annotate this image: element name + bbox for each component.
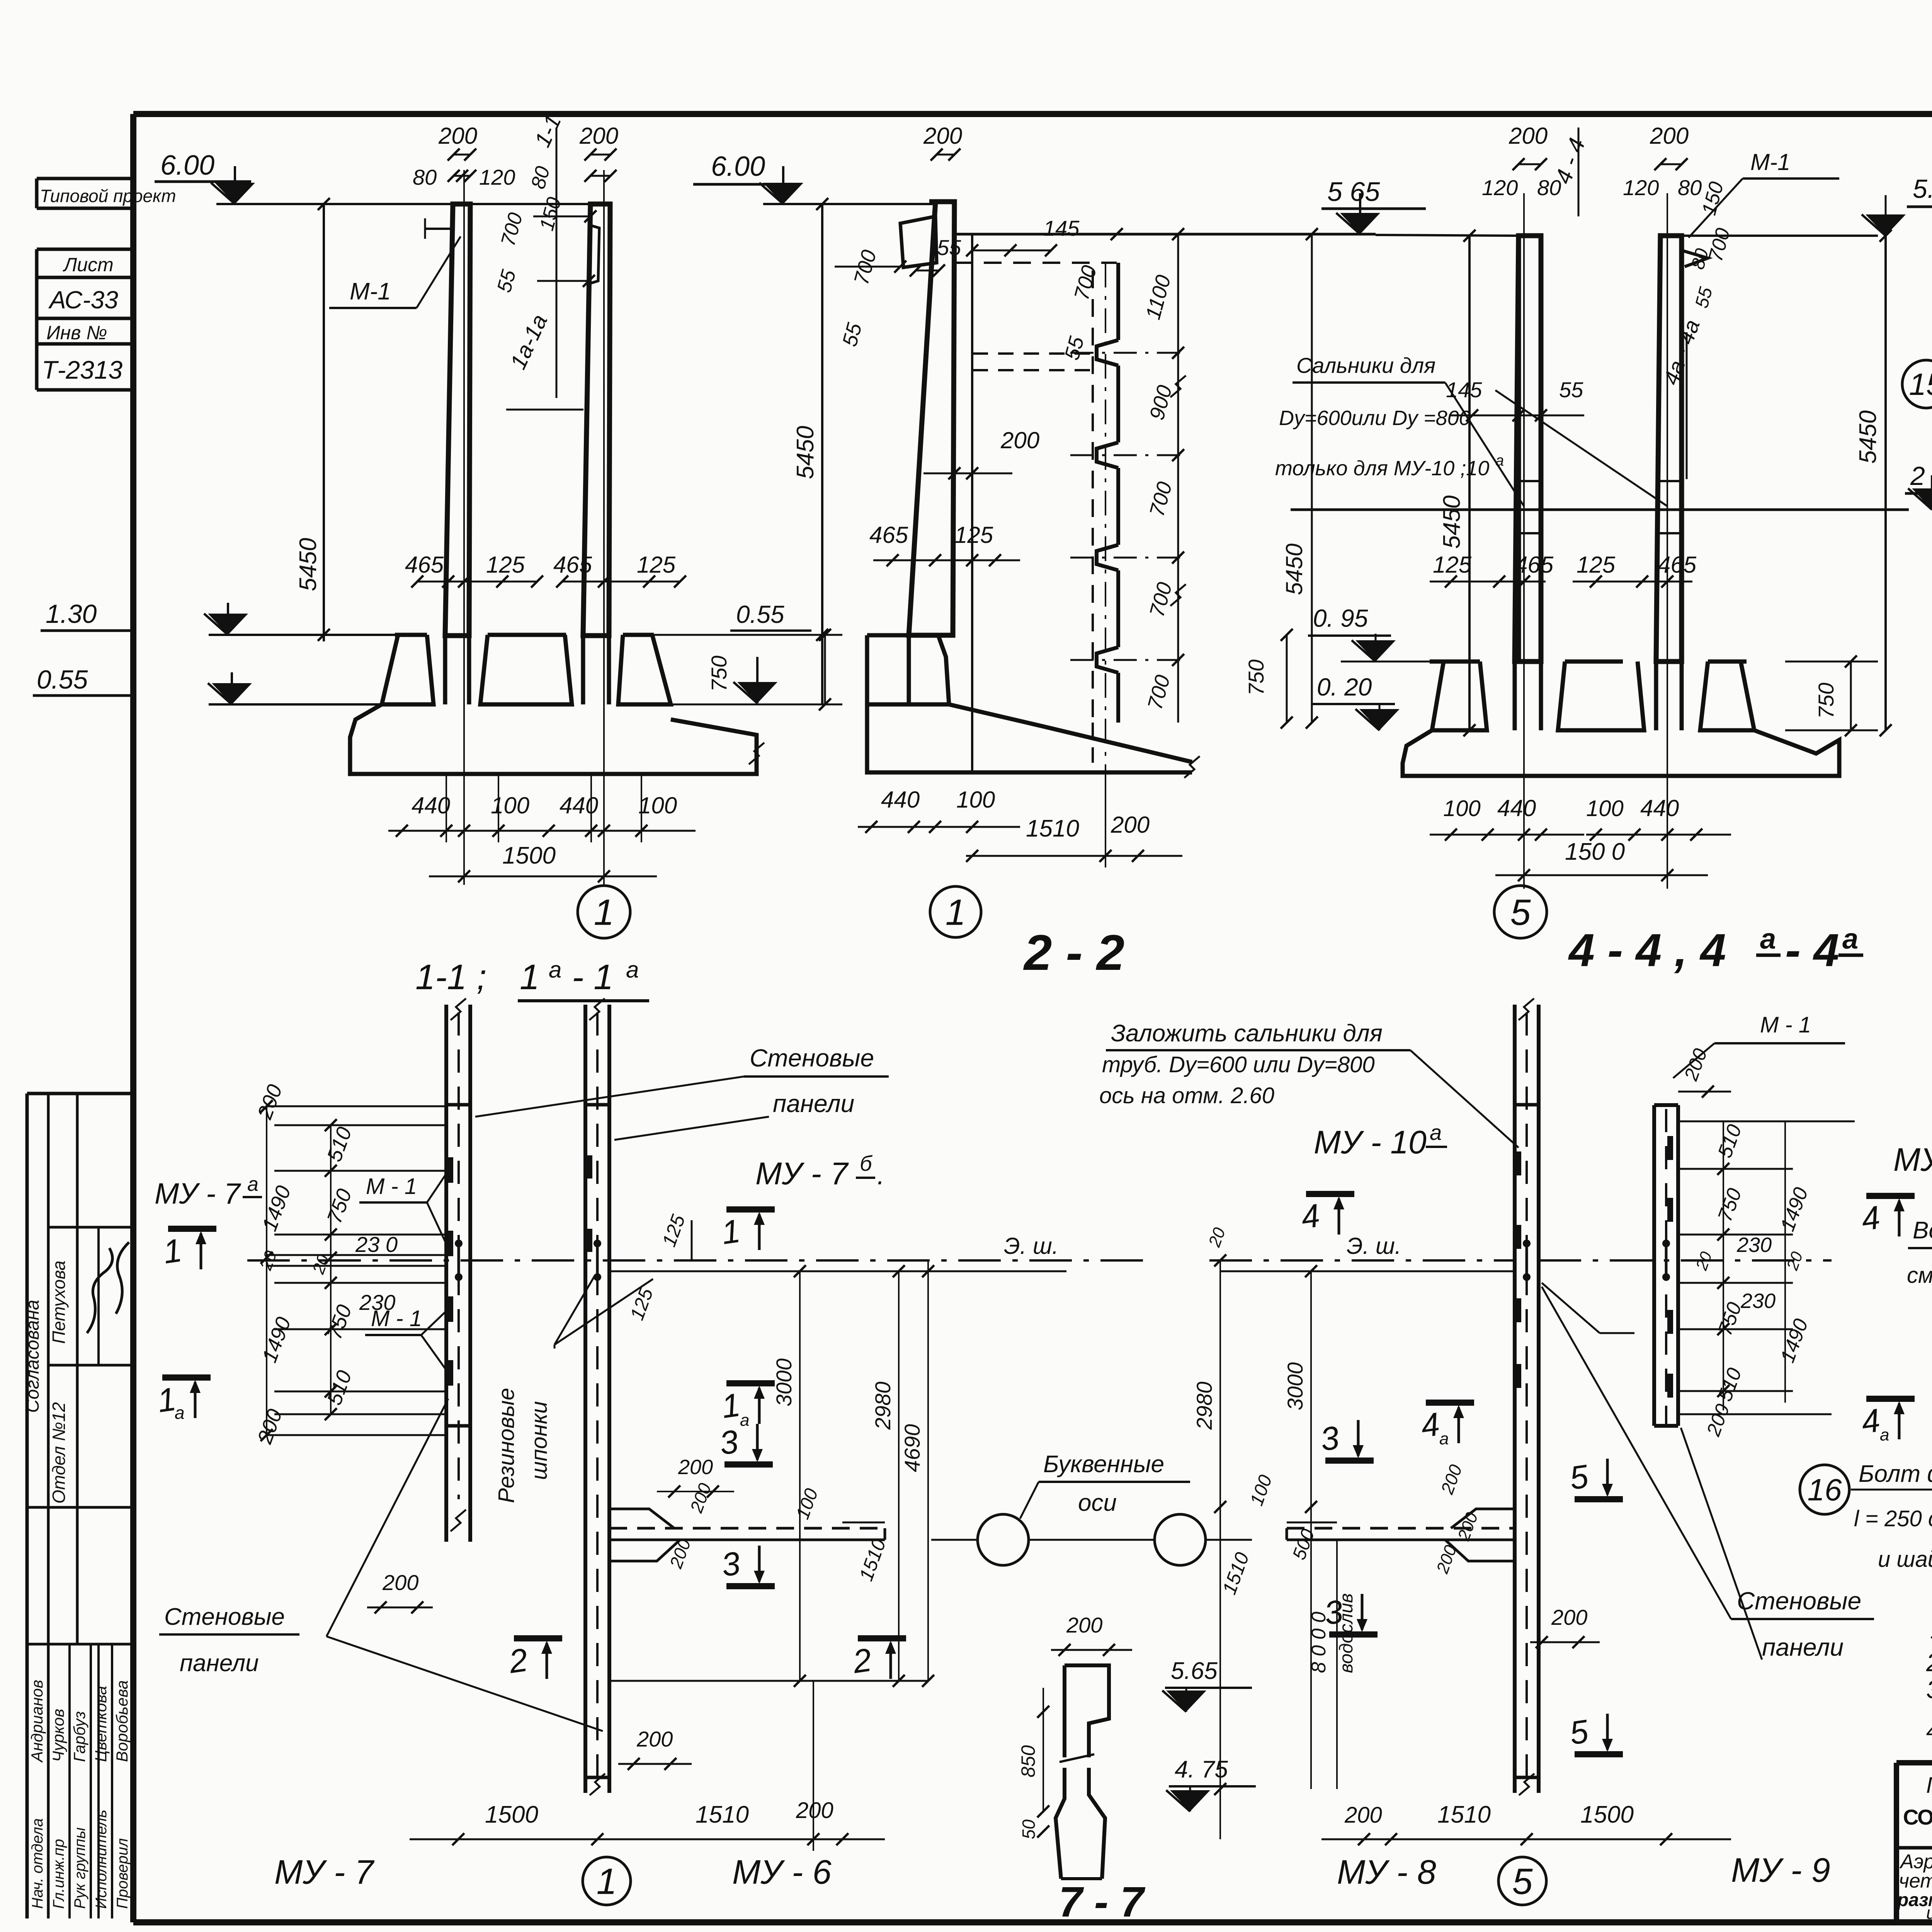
section 2-2 footing dashed axis (1092, 723, 1094, 772)
MU-7a dim chains left (267, 1105, 446, 1107)
svg-text:15: 15 (1909, 367, 1932, 401)
svg-text:200: 200 (382, 1570, 418, 1595)
svg-text:а: а (1842, 923, 1858, 955)
svg-text:1.30: 1.30 (46, 599, 97, 629)
svg-text:0.55: 0.55 (37, 665, 88, 694)
section 4-4 dim 750 right (1785, 661, 1878, 663)
svg-text:Цветкова: Цветкова (92, 1686, 110, 1762)
svg-text:465: 465 (405, 552, 444, 578)
MU-7a wall (444, 1005, 448, 1504)
svg-text:750: 750 (707, 656, 731, 692)
svg-text:панели: панели (1762, 1633, 1844, 1661)
MU-7a wall plate marks (447, 1157, 453, 1183)
svg-text:Госстрой СССР: Госстрой СССР (1926, 1773, 1932, 1798)
svg-text:1: 1 (946, 892, 966, 933)
svg-text:а: а (1439, 1429, 1449, 1448)
svg-text:М-1: М-1 (350, 278, 391, 305)
svg-text:1-1 ;: 1-1 ; (415, 957, 486, 997)
section 1-1 base slab (350, 704, 757, 774)
svg-text:0. 20: 0. 20 (1317, 673, 1372, 701)
svg-text:200: 200 (1650, 123, 1689, 149)
MU-6 sec 3 marks (724, 1461, 773, 1468)
svg-text:230: 230 (1740, 1289, 1776, 1313)
MU-9 wall plate marks (1667, 1136, 1673, 1160)
svg-text:Воробьева: Воробьева (113, 1680, 131, 1762)
svg-text:а: а (1760, 923, 1776, 955)
svg-text:а: а (549, 957, 561, 983)
svg-text:М - 1: М - 1 (371, 1306, 422, 1331)
MU-9 sec marks 4 (1866, 1193, 1915, 1199)
MU-8 sec mark 4a (1426, 1400, 1474, 1406)
svg-text:только для МУ-10 ;10: только для МУ-10 ;10 (1275, 457, 1489, 480)
svg-text:440: 440 (1497, 795, 1536, 821)
svg-text:1: 1 (594, 892, 614, 933)
svg-text:200: 200 (1000, 427, 1039, 453)
svg-text:Болт ф16 А: Болт ф16 А (1859, 1461, 1932, 1487)
svg-text:5. 65: 5. 65 (1913, 174, 1932, 204)
section 2-2 wall (909, 202, 954, 635)
svg-text:Стеновые: Стеновые (750, 1044, 874, 1072)
svg-text:см. прим. п. 4: см. прим. п. 4 (1907, 1263, 1932, 1288)
svg-text:МУ - 6: МУ - 6 (732, 1853, 832, 1891)
section 2-2 footing (867, 635, 949, 704)
svg-text:1510: 1510 (1026, 815, 1079, 842)
rubber waterstop marks (455, 1240, 463, 1247)
centerline Э.ш. MU-8 (1209, 1259, 1515, 1262)
title block (1896, 1760, 1932, 1765)
svg-text:200: 200 (1344, 1803, 1382, 1828)
MU-7a lower part (444, 1504, 448, 1542)
svg-text:а: а (175, 1403, 185, 1423)
svg-text:200: 200 (636, 1727, 673, 1751)
svg-text:оси: оси (1078, 1490, 1117, 1516)
MU-6 notch detail (609, 1527, 885, 1530)
svg-text:ось на отм. 2.60: ось на отм. 2.60 (1099, 1083, 1274, 1108)
section 2-2 panel axis (1105, 263, 1106, 771)
svg-text:- 4: - 4 (1785, 924, 1839, 976)
svg-text:Т-2313: Т-2313 (42, 355, 122, 384)
svg-text:440: 440 (560, 793, 598, 818)
svg-text:из сборного железобетона: из сборного железобетона (1926, 1903, 1932, 1923)
svg-text:Рук группы: Рук группы (71, 1827, 88, 1909)
svg-text:6.00: 6.00 (160, 150, 214, 181)
centerline Э.ш. (247, 1259, 1151, 1262)
MU-7b wall plate marks (587, 1155, 592, 1179)
svg-text:а: а (1880, 1425, 1889, 1444)
section 2-2 toothed panel (1092, 270, 1094, 723)
svg-text:Нач. отдела: Нач. отдела (29, 1818, 46, 1909)
svg-text:а: а (626, 957, 639, 983)
svg-text:100: 100 (491, 793, 529, 818)
svg-text:1500: 1500 (1580, 1801, 1634, 1828)
section 1-1 top dims 200/80/120 (454, 154, 470, 156)
svg-text:5450: 5450 (1281, 544, 1307, 595)
svg-text:0. 95: 0. 95 (1313, 604, 1368, 632)
section 4-4 footing (1430, 660, 1480, 664)
svg-text:1500: 1500 (485, 1801, 538, 1828)
svg-text:200: 200 (923, 123, 962, 149)
sec marks 2 (514, 1635, 562, 1641)
svg-text:200: 200 (1509, 123, 1548, 149)
svg-text:440: 440 (412, 793, 450, 818)
svg-text:125: 125 (637, 552, 676, 578)
MU-9 dim chains right (1678, 1121, 1855, 1122)
section 4-4 col2 axis (1667, 193, 1668, 889)
svg-text:80: 80 (413, 165, 437, 189)
svg-text:465: 465 (869, 522, 908, 548)
svg-text:55: 55 (937, 235, 961, 260)
svg-text:Заложить сальники для: Заложить сальники для (1111, 1020, 1383, 1047)
svg-text:100: 100 (638, 793, 677, 818)
section 4-4 column 2 (1656, 236, 1682, 662)
svg-text:панели: панели (180, 1650, 259, 1677)
svg-text:100: 100 (956, 787, 995, 813)
svg-text:Стеновые: Стеновые (164, 1604, 285, 1630)
svg-text:l = 250 с гайками: l = 250 с гайками (1854, 1506, 1932, 1531)
section 6-6 callout 16 bolt label (1800, 1465, 1849, 1514)
MU-10a sec mark 4 (1306, 1191, 1354, 1197)
section 1-1 dim 750 right (824, 635, 826, 704)
svg-text:125: 125 (486, 552, 525, 578)
MU-8 wall plate marks (1515, 1151, 1521, 1175)
axis bubble 5 bottom (1498, 1857, 1546, 1905)
svg-text:100: 100 (1443, 796, 1481, 821)
svg-text:Буквенные: Буквенные (1043, 1451, 1164, 1478)
section 2-2 wall face line (971, 234, 973, 773)
svg-text:Отдел №12: Отдел №12 (49, 1402, 69, 1504)
svg-text:Чурков: Чурков (49, 1709, 67, 1762)
section 2-2 hidden slab dashes (973, 352, 1094, 355)
svg-text:465: 465 (553, 552, 592, 578)
svg-text:750: 750 (1814, 683, 1838, 719)
svg-text:Исполнитель: Исполнитель (93, 1810, 110, 1909)
svg-text:100: 100 (1586, 796, 1624, 821)
svg-text:МУ - 10: МУ - 10 (1314, 1124, 1427, 1160)
svg-text:125: 125 (1577, 552, 1616, 578)
section 1-1 footing (395, 633, 427, 637)
centerline to MU-9 (1539, 1259, 1832, 1262)
svg-text:1: 1 (520, 957, 539, 997)
svg-text:и шайбами: и шайбами (1878, 1547, 1932, 1572)
svg-text:80: 80 (1678, 175, 1702, 200)
MU-8 waterstop (1523, 1240, 1531, 1247)
svg-text:55: 55 (1559, 378, 1583, 402)
section 1-1 column 1 (445, 204, 470, 636)
svg-text:а: а (1430, 1120, 1442, 1145)
svg-text:АС-33: АС-33 (48, 286, 118, 314)
svg-text:7 - 7: 7 - 7 (1059, 1878, 1146, 1926)
svg-text:Резиновые: Резиновые (494, 1388, 519, 1503)
MU-9 waterstop (1662, 1240, 1670, 1247)
svg-text:3000: 3000 (1283, 1362, 1307, 1410)
svg-text:145: 145 (1043, 216, 1080, 240)
svg-text:1: 1 (597, 1861, 617, 1902)
svg-text:шпонки: шпонки (527, 1401, 552, 1480)
svg-text:панели: панели (773, 1090, 854, 1117)
section 1-1 dim 5450 left (323, 204, 325, 641)
svg-text:1. Монтажные чертежи: 1. Монтажные чертежи см. л. п. АС- 23- 2… (1930, 1615, 1932, 1644)
svg-text:145: 145 (1446, 378, 1482, 402)
svg-text:465: 465 (1515, 552, 1554, 578)
svg-text:200: 200 (1111, 812, 1150, 838)
svg-text:4. 75: 4. 75 (1175, 1756, 1228, 1783)
MU-8 room dims (1219, 1260, 1221, 1839)
svg-text:2980: 2980 (871, 1381, 895, 1430)
svg-text:440: 440 (881, 787, 920, 813)
svg-text:5450: 5450 (1439, 495, 1465, 549)
svg-text:- 1: - 1 (572, 957, 613, 997)
svg-text:200: 200 (579, 123, 618, 149)
svg-text:4. Для изготовления водослив: 4. Для изготовления водослива принять ор… (1926, 1718, 1932, 1744)
svg-text:Инв №: Инв № (46, 322, 107, 344)
section 4-4 axis bubble 5 (1494, 886, 1547, 938)
svg-text:М - 1: М - 1 (1760, 1012, 1811, 1037)
svg-text:Э. ш.: Э. ш. (1347, 1233, 1401, 1259)
svg-text:120: 120 (1623, 175, 1659, 200)
svg-text:5450: 5450 (792, 426, 819, 479)
section 4-4 column 1 (1515, 236, 1541, 662)
svg-text:четырехкоридорные с: четырехкоридорные с (1899, 1870, 1932, 1892)
svg-text:200: 200 (796, 1798, 833, 1823)
svg-text:б: б (860, 1151, 873, 1175)
svg-text:150 0: 150 0 (1565, 838, 1625, 865)
MU-6 room dims (609, 1270, 1066, 1272)
MU-9 wall (1652, 1105, 1656, 1426)
svg-text:200: 200 (678, 1456, 713, 1479)
section 4-4 level line left (1376, 235, 1519, 236)
section 4-4 mid level 2.60 line (1291, 509, 1909, 511)
svg-text:5.65: 5.65 (1171, 1658, 1218, 1684)
svg-text:125: 125 (954, 522, 993, 548)
svg-text:440: 440 (1640, 795, 1679, 821)
MU-7a sec marks (168, 1226, 216, 1232)
left margin boxes (37, 177, 133, 180)
svg-text:водослив: водослив (1336, 1593, 1357, 1673)
svg-text:16: 16 (1808, 1473, 1842, 1507)
svg-text:.: . (877, 1160, 884, 1190)
svg-text:2 - 2: 2 - 2 (1023, 924, 1124, 981)
svg-text:а: а (740, 1411, 749, 1430)
svg-text:МУ - 7: МУ - 7 (755, 1156, 849, 1191)
svg-text:200: 200 (438, 123, 477, 149)
MU-8 bottom zig (1519, 1774, 1534, 1795)
svg-text:МУ - 10: МУ - 10 (1893, 1141, 1932, 1178)
section 1-1 axis bubble 1 (578, 886, 630, 938)
svg-text:М - 1: М - 1 (366, 1174, 417, 1199)
svg-text:3000: 3000 (772, 1358, 796, 1406)
section 4-4 dim 5450 far left (1468, 236, 1471, 730)
MU-8 wall (1513, 1005, 1517, 1793)
svg-text:4690: 4690 (900, 1424, 924, 1472)
svg-text:Петухова: Петухова (49, 1260, 69, 1344)
svg-text:120: 120 (1482, 175, 1518, 200)
svg-text:труб. Dy=600 или Dy=800: труб. Dy=600 или Dy=800 (1102, 1052, 1375, 1077)
section 2-2 panel dim chain (1177, 234, 1179, 723)
svg-text:Проверил: Проверил (114, 1838, 131, 1909)
svg-text:1510: 1510 (1437, 1801, 1491, 1828)
svg-text:5: 5 (1510, 892, 1531, 933)
svg-text:230: 230 (1736, 1233, 1772, 1257)
svg-text:СОЮЗВОДОКАНАЛПРОЕКТ: СОЮЗВОДОКАНАЛПРОЕКТ (1903, 1805, 1932, 1829)
section 1-1 column 2 axis (603, 170, 605, 885)
lower-left stamp block (27, 1092, 133, 1095)
MU-8 sec 5 marks (1575, 1496, 1623, 1502)
svg-text:0.55: 0.55 (736, 600, 784, 628)
svg-text:200: 200 (1066, 1613, 1102, 1637)
section 2-2 top level line (954, 233, 1376, 236)
svg-text:6.00: 6.00 (711, 151, 765, 182)
svg-text:Э. ш.: Э. ш. (1004, 1233, 1058, 1259)
svg-text:Гарбуз: Гарбуз (70, 1711, 88, 1762)
section 4-4 dim 5450 right (1884, 236, 1887, 730)
section 2-2 dim 750 and 5450 right (1286, 635, 1288, 723)
svg-text:50: 50 (1019, 1819, 1039, 1839)
section 2-2 dim 5450 left (821, 204, 823, 704)
svg-text:200: 200 (1551, 1605, 1587, 1629)
svg-text:120: 120 (479, 165, 515, 189)
svg-text:Гл.инж.пр: Гл.инж.пр (50, 1839, 67, 1909)
MU-7b wall (583, 1005, 587, 1793)
svg-text:5450: 5450 (1855, 410, 1881, 464)
section 2-2 top dims (937, 154, 954, 156)
section 1-1 level line between columns (470, 203, 590, 205)
section 1-1 column 2 (583, 204, 610, 636)
svg-text:3. Бетонирование производит: 3. Бетонирование производить с обязатель… (1926, 1675, 1932, 1704)
svg-text:Согласована: Согласована (22, 1300, 43, 1413)
svg-text:МУ - 9: МУ - 9 (1731, 1851, 1830, 1889)
svg-text:2 60: 2 60 (1910, 461, 1932, 491)
svg-text:2980: 2980 (1192, 1381, 1216, 1430)
svg-text:МУ - 7: МУ - 7 (155, 1177, 241, 1210)
svg-text:1500: 1500 (502, 842, 556, 869)
svg-text:5450: 5450 (295, 538, 321, 591)
svg-text:5 65: 5 65 (1327, 177, 1380, 207)
axis bubble 1 bottom (583, 1857, 631, 1905)
svg-text:4 - 4 , 4: 4 - 4 , 4 (1568, 924, 1726, 976)
sheet frame (133, 111, 1932, 117)
section 4-4 col1 axis (1523, 193, 1525, 889)
svg-text:Андрианов: Андрианов (28, 1680, 46, 1763)
svg-text:23 0: 23 0 (355, 1232, 398, 1257)
svg-text:750: 750 (1244, 660, 1268, 696)
svg-text:Лист: Лист (63, 254, 114, 276)
MU-8 notch detail (1287, 1527, 1515, 1530)
section 2-2 axis bubble 1 (930, 886, 981, 937)
svg-text:МУ - 8: МУ - 8 (1337, 1853, 1436, 1891)
svg-text:1510: 1510 (696, 1801, 749, 1828)
svg-text:2. Арматурные чертежи: 2. Арматурные чертежи см. л. л. АС- 41 ÷… (1926, 1648, 1932, 1677)
svg-text:465: 465 (1658, 552, 1697, 578)
section 7-7 column (1065, 1665, 1109, 1757)
MU-8 sec 3 marks (1325, 1458, 1374, 1464)
section 5-5 gas pipe callout 15 (1902, 360, 1932, 408)
svg-text:850: 850 (1017, 1745, 1039, 1777)
section 1-1 column 1 axis (463, 170, 465, 885)
section 7-7 dims 850 50 (1043, 1688, 1044, 1811)
svg-text:МУ - 7: МУ - 7 (274, 1853, 375, 1891)
svg-text:Dy=600или Dy =800: Dy=600или Dy =800 (1279, 406, 1471, 430)
svg-text:М-1: М-1 (1750, 149, 1790, 175)
svg-text:Стеновые: Стеновые (1737, 1587, 1861, 1615)
svg-text:8 0 0 0: 8 0 0 0 (1308, 1612, 1330, 1673)
bukvennye osi circles (978, 1514, 1029, 1565)
svg-text:5: 5 (1512, 1861, 1533, 1902)
svg-text:Сальники для: Сальники для (1296, 353, 1435, 378)
svg-text:Типовой проект: Типовой проект (40, 186, 176, 206)
svg-text:Водослив: Водослив (1913, 1217, 1932, 1244)
section 4-4 top dims (1519, 163, 1541, 165)
MU-7b sec marks (726, 1206, 775, 1213)
MU-6 bottom line (609, 1680, 928, 1682)
svg-text:а: а (247, 1173, 259, 1196)
svg-text:125: 125 (1433, 552, 1472, 578)
